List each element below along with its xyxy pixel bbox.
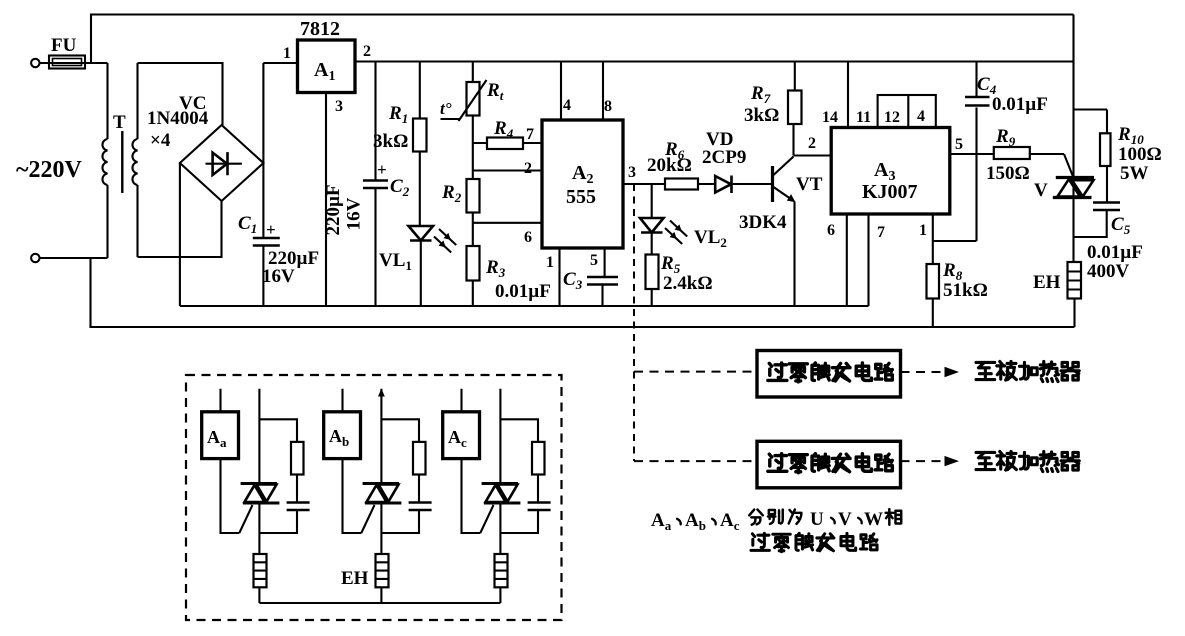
svg-text:U: U [810, 509, 824, 530]
svg-text:2: 2 [808, 135, 816, 152]
svg-text:555: 555 [566, 186, 596, 208]
svg-text:220µF: 220µF [323, 184, 344, 235]
svg-text:2CP9: 2CP9 [702, 147, 746, 168]
svg-text:14: 14 [822, 109, 838, 126]
svg-text:5W: 5W [1120, 163, 1149, 184]
svg-text:~220V: ~220V [16, 157, 82, 183]
svg-text:FU: FU [51, 35, 77, 56]
svg-text:2.4kΩ: 2.4kΩ [663, 273, 713, 294]
svg-text:6: 6 [524, 229, 532, 246]
svg-text:7: 7 [877, 224, 885, 241]
svg-text:7812: 7812 [300, 18, 340, 40]
svg-text:×4: ×4 [150, 130, 171, 151]
svg-text:VT: VT [796, 174, 823, 195]
svg-text:1N4004: 1N4004 [147, 108, 209, 129]
svg-text:11: 11 [856, 109, 871, 126]
svg-text:150Ω: 150Ω [986, 163, 1030, 184]
svg-text:3DK4: 3DK4 [739, 212, 787, 233]
svg-text:T: T [113, 112, 126, 133]
svg-text:4: 4 [563, 97, 571, 114]
svg-text:6: 6 [827, 222, 835, 239]
svg-text:1: 1 [283, 45, 291, 62]
svg-text:KJ007: KJ007 [862, 181, 918, 203]
svg-text:V: V [838, 509, 852, 530]
svg-text:3: 3 [628, 164, 636, 181]
svg-text:+: + [377, 160, 387, 179]
svg-text:2: 2 [363, 43, 371, 60]
svg-text:16V: 16V [262, 266, 295, 287]
svg-text:0.01µF: 0.01µF [1087, 242, 1143, 263]
svg-text:8: 8 [604, 98, 612, 115]
svg-text:t°: t° [440, 99, 452, 118]
svg-text:100Ω: 100Ω [1118, 144, 1162, 165]
svg-text:16V: 16V [344, 197, 365, 230]
svg-text:4: 4 [917, 108, 925, 125]
svg-text:EH: EH [1033, 272, 1061, 293]
svg-text:12: 12 [884, 109, 900, 126]
svg-text:51kΩ: 51kΩ [943, 280, 988, 301]
svg-text:2: 2 [524, 160, 532, 177]
svg-text:EH: EH [341, 568, 369, 589]
svg-text:5: 5 [590, 252, 598, 269]
svg-text:3kΩ: 3kΩ [744, 105, 779, 126]
svg-text:400V: 400V [1087, 261, 1130, 282]
svg-text:+: + [266, 220, 276, 239]
svg-text:1: 1 [546, 254, 554, 271]
svg-text:3kΩ: 3kΩ [373, 131, 408, 152]
svg-text:0.01µF: 0.01µF [495, 281, 551, 302]
svg-text:5: 5 [955, 136, 963, 153]
svg-text:20kΩ: 20kΩ [647, 155, 692, 176]
svg-text:1: 1 [919, 222, 927, 239]
svg-text:V: V [1034, 180, 1048, 201]
svg-text:0.01µF: 0.01µF [992, 94, 1048, 115]
svg-text:W: W [864, 509, 883, 530]
svg-text:3: 3 [335, 98, 343, 115]
svg-text:7: 7 [526, 126, 534, 143]
